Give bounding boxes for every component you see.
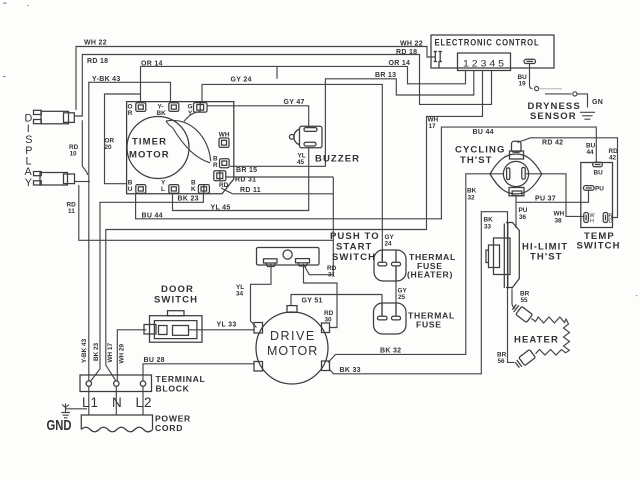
hi-limit thermostat <box>486 223 568 289</box>
dryness sensor label <box>528 101 581 122</box>
svg-text:YL 33: YL 33 <box>217 322 237 329</box>
svg-text:RD 18: RD 18 <box>87 58 108 65</box>
svg-text:H: H <box>590 219 594 225</box>
svg-text:TH'ST: TH'ST <box>460 155 493 166</box>
GND label <box>47 417 72 434</box>
svg-text:BR 15: BR 15 <box>236 167 257 174</box>
svg-text:BK: BK <box>467 187 477 194</box>
wire GY 51 <box>291 295 382 317</box>
svg-text:TERMINAL: TERMINAL <box>156 374 206 384</box>
timer terminal WH <box>219 131 230 147</box>
svg-text:SWITCH: SWITCH <box>154 295 198 306</box>
svg-text:BU 28: BU 28 <box>144 357 165 364</box>
svg-text:56: 56 <box>498 358 506 365</box>
thermal fuse (heater) <box>374 250 456 281</box>
wire GY 24 <box>202 84 382 263</box>
svg-text:DOOR: DOOR <box>161 284 194 295</box>
svg-text:11: 11 <box>68 208 75 215</box>
svg-text:PUSH TO: PUSH TO <box>330 231 380 242</box>
svg-text:Y-BK 43: Y-BK 43 <box>92 76 121 83</box>
svg-text:CORD: CORD <box>155 423 183 433</box>
L1 N L2 labels <box>82 395 153 410</box>
wire GY 25 <box>395 267 397 317</box>
wire WH 17 <box>106 71 483 381</box>
wire RD 30 <box>304 264 338 328</box>
svg-text:SWITCH: SWITCH <box>332 252 376 263</box>
svg-text:25: 25 <box>398 294 406 301</box>
timer terminal GY <box>188 103 208 117</box>
wire RD 11 timer branch <box>221 188 333 194</box>
wire OR 20 <box>105 94 141 184</box>
svg-text:YL 45: YL 45 <box>211 205 231 212</box>
svg-text:L2: L2 <box>136 395 153 410</box>
connector (WH 22 input) inside electronic control <box>434 52 442 69</box>
svg-text:FUSE: FUSE <box>416 319 442 329</box>
wire BU 28 <box>143 364 254 381</box>
svg-text:SWITCH: SWITCH <box>577 241 621 252</box>
wire RD 42 <box>518 138 618 218</box>
timer terminal BU <box>128 180 146 194</box>
svg-text:BLOCK: BLOCK <box>156 384 190 394</box>
svg-text:TH'ST: TH'ST <box>530 252 563 263</box>
svg-text:GY 51: GY 51 <box>302 298 323 305</box>
drive motor <box>254 306 330 384</box>
wire L2 to power cord <box>142 387 144 416</box>
svg-text:MOTOR: MOTOR <box>267 344 318 358</box>
svg-text:BR 13: BR 13 <box>375 72 396 79</box>
svg-text:BK 33: BK 33 <box>340 367 361 374</box>
svg-text:D: D <box>609 219 613 225</box>
svg-text:Y: Y <box>25 177 32 189</box>
svg-text:Y: Y <box>188 110 193 117</box>
svg-text:32: 32 <box>468 194 476 201</box>
push to start switch <box>257 248 320 267</box>
wire OR 14 <box>141 66 466 102</box>
svg-text:BK: BK <box>157 110 167 117</box>
svg-text:RD 31: RD 31 <box>235 177 256 184</box>
svg-text:OR 14: OR 14 <box>141 61 163 68</box>
svg-text:GND: GND <box>47 417 72 434</box>
page speck marks <box>3 3 637 297</box>
wire WH 22 <box>76 47 435 111</box>
svg-text:GN: GN <box>592 99 603 106</box>
power cord <box>81 414 191 434</box>
timer terminal BR <box>213 156 229 170</box>
electronic control box <box>431 35 554 68</box>
svg-text:(HEATER): (HEATER) <box>407 270 453 280</box>
svg-text:RD 42: RD 42 <box>542 140 563 147</box>
svg-text:Y-BK 43: Y-BK 43 <box>81 338 88 363</box>
svg-text:CYCLING: CYCLING <box>455 145 505 156</box>
wire L1 to power cord <box>88 387 90 416</box>
svg-text:MOTOR: MOTOR <box>129 150 170 161</box>
svg-text:L1: L1 <box>82 395 99 410</box>
svg-text:RD: RD <box>219 182 229 189</box>
svg-text:ELECTRONIC CONTROL: ELECTRONIC CONTROL <box>435 37 540 48</box>
connector slot (BU 19 output) of electronic control <box>524 59 536 63</box>
svg-text:BU: BU <box>594 170 604 177</box>
svg-text:START: START <box>336 242 372 253</box>
svg-text:19: 19 <box>519 81 527 88</box>
svg-text:HEATER: HEATER <box>514 335 559 346</box>
wire Y-BK 43 <box>89 82 171 380</box>
svg-text:WH 22: WH 22 <box>84 39 107 46</box>
cycling thermostat <box>455 141 542 196</box>
wire RD 11 <box>79 185 333 240</box>
door switch <box>144 284 202 342</box>
wire BK 33 <box>330 212 515 374</box>
ground GN (dryness sensor) <box>580 112 595 119</box>
svg-text:1 2 3 4 5: 1 2 3 4 5 <box>463 58 504 69</box>
timer terminal YL <box>161 180 179 194</box>
wire RD 18 <box>74 55 492 117</box>
wire BK 23 <box>90 194 203 382</box>
svg-text:42: 42 <box>609 154 617 161</box>
svg-text:POWER: POWER <box>155 414 191 424</box>
svg-text:WH 22: WH 22 <box>400 41 423 48</box>
svg-text:OR 14: OR 14 <box>389 60 411 67</box>
buzzer <box>289 126 360 164</box>
svg-text:U: U <box>128 186 133 193</box>
svg-text:WH: WH <box>219 131 230 138</box>
timer terminal Y-BK <box>157 103 179 117</box>
svg-text:RD 18: RD 18 <box>396 49 417 56</box>
svg-text:34: 34 <box>236 291 244 298</box>
timer terminal OR <box>128 103 146 117</box>
svg-text:BK 23: BK 23 <box>93 342 100 361</box>
svg-text:GY 24: GY 24 <box>231 76 252 83</box>
svg-text:N: N <box>112 395 122 410</box>
svg-text:20: 20 <box>105 144 113 151</box>
svg-text:L: L <box>161 186 165 193</box>
svg-text:BK: BK <box>484 216 494 223</box>
display label (vertical) <box>25 113 33 190</box>
heater <box>511 289 569 369</box>
svg-text:RD 11: RD 11 <box>240 187 261 194</box>
svg-text:44: 44 <box>587 149 595 156</box>
svg-text:PU 37: PU 37 <box>535 195 556 202</box>
svg-text:SENSOR: SENSOR <box>530 111 577 122</box>
svg-text:PU: PU <box>595 186 604 193</box>
svg-text:38: 38 <box>555 217 563 224</box>
wire PU 37 <box>516 191 589 203</box>
svg-text:BK 32: BK 32 <box>380 348 401 355</box>
svg-text:24: 24 <box>385 241 393 248</box>
wire RD 31 <box>226 177 334 275</box>
wire WH 29 <box>117 330 146 381</box>
svg-text:BUZZER: BUZZER <box>315 154 360 165</box>
terminal block <box>80 374 206 394</box>
svg-text:TIMER: TIMER <box>132 137 167 148</box>
svg-text:30: 30 <box>325 316 333 323</box>
svg-text:17: 17 <box>429 123 437 130</box>
display lower connector <box>34 172 75 186</box>
svg-text:33: 33 <box>484 223 492 230</box>
wire WH 38 <box>526 174 584 217</box>
svg-text:GY 47: GY 47 <box>284 99 305 106</box>
svg-text:BU 44: BU 44 <box>473 129 494 136</box>
svg-text:WH 29: WH 29 <box>119 344 126 364</box>
timer terminal RD <box>214 171 229 189</box>
wire YL 33 <box>189 329 254 331</box>
wire RD 10 <box>75 120 91 181</box>
electronic control terminal strip 1 2 3 4 5 <box>458 53 511 71</box>
svg-text:10: 10 <box>70 150 78 157</box>
wire YL 45 <box>173 147 309 211</box>
svg-text:45: 45 <box>297 159 305 166</box>
wire N to power cord <box>115 387 117 416</box>
svg-text:55: 55 <box>521 297 529 304</box>
svg-text:31: 31 <box>328 271 336 278</box>
wire BU 44 <box>136 127 597 219</box>
svg-text:BU 44: BU 44 <box>142 213 163 220</box>
wire BU 19 <box>530 64 588 108</box>
svg-text:WH 17: WH 17 <box>107 343 114 363</box>
thermal fuse <box>374 303 455 334</box>
wire YL 34 <box>251 264 272 328</box>
svg-text:BK 23: BK 23 <box>178 196 199 203</box>
timer terminal BK <box>191 180 209 194</box>
timer motor box <box>127 102 234 194</box>
display upper connector <box>34 110 75 124</box>
wire BR 13 / BR 15 <box>230 66 474 166</box>
label PUSH TO START SWITCH <box>330 231 380 263</box>
temp switch <box>577 162 621 251</box>
svg-text:DRIVE: DRIVE <box>270 329 316 343</box>
svg-text:R: R <box>213 162 218 169</box>
wire PU 36 <box>515 196 517 228</box>
svg-text:R: R <box>128 110 133 117</box>
ground GND chassis <box>61 404 87 418</box>
wire GY 47 <box>207 106 309 127</box>
wire BK 32 <box>328 174 504 363</box>
svg-text:K: K <box>191 186 196 193</box>
svg-text:36: 36 <box>519 214 527 221</box>
